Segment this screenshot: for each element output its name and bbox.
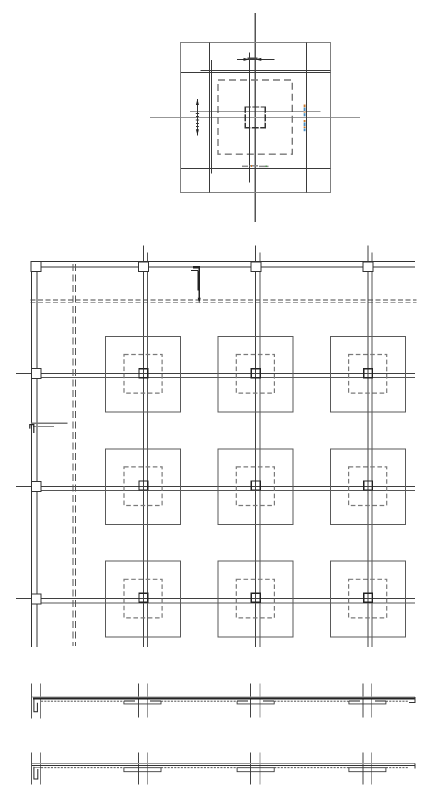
top dimension text blob [248,57,258,59]
hidden beam dashed lines [31,264,417,646]
s2 soffit dashed segments [41,767,409,769]
left wall annotation leader [30,423,68,433]
footing F7 r3c1 [106,561,181,637]
s2 column c3 pair [362,753,364,785]
grid line 3 horizontal main row3 [16,598,415,600]
left wall inner line [36,271,38,647]
horizontal dashed beam line a [31,299,417,301]
s1 drop panel c3 [349,701,386,704]
left dimension rotated text ticks [196,114,199,127]
left dimension line vertical [196,99,198,135]
tiny text color dots [251,165,252,167]
footings grid 3x3 [106,336,406,637]
s1 soffit dashed segments [41,700,409,702]
left dimension arrow bottom [196,129,199,135]
detail inner frame vertical left second [210,60,212,174]
vertical dashed beam line b [74,264,76,646]
s2 column c2 pair [250,753,252,785]
footing F9 r3c3 [330,561,405,637]
detail column square dash-dot [245,107,265,128]
leader top blob [193,266,200,268]
s1 drop panel c2 [237,701,274,704]
footing F4 r2c1 [106,449,181,525]
s1 slab top thin line [32,696,415,698]
s1 left rebar hook [34,700,38,712]
detail centerline vertical [254,13,256,222]
leader arrow at top wall [191,267,201,303]
annotation line upper [31,422,67,424]
column face line horizontal row2 [41,490,415,492]
footing F8 r3c2 [218,561,293,637]
grid line B vertical main col2 [255,246,257,648]
detail inner frame vertical left [208,43,210,193]
s1 column left pair [31,684,33,719]
s2 left rebar hook [34,767,38,779]
top wall inner line [41,266,415,268]
boundary walls [31,261,415,647]
leader arrowhead [198,298,201,304]
vertical dashed beam line a [72,264,74,646]
s1 column c2 pair [250,684,252,718]
detail centerline horizontal [150,117,360,119]
s1 drop panel c1 [124,701,161,704]
leader bracket horizontal [191,269,198,271]
footing F3 r1c3 [330,336,405,412]
detail inner frame horizontal top lower [181,71,330,73]
detail inner frame vertical right [306,43,308,193]
top wall column c1 [139,262,149,272]
grid line 2 horizontal main row2 [16,485,415,487]
column face line vertical col3 [371,253,373,648]
annotation line lower [33,425,54,427]
grid line C vertical main col3 [367,246,369,648]
grid line A vertical main col1 [142,246,144,648]
s1 slab dark line [33,698,415,700]
s2 drop panel c1 [124,768,161,772]
left wall outer line [30,261,32,647]
wall columns [31,261,373,604]
leader vertical line [198,267,200,301]
horizontal dashed beam line b [31,301,417,303]
footing F2 r1c2 [218,336,293,412]
grid line 1 horizontal main row1 [16,372,415,374]
detail dashed footing square [218,80,292,154]
s2 drop panel c3 [349,768,386,772]
top dimension line [237,58,274,60]
s1 right end cap [409,697,415,702]
left wall column r1 [31,369,41,379]
top wall column c2 [251,262,261,272]
s2 slab top thin line b [32,764,415,766]
s2 right end cap [414,764,416,769]
colored vertical dim text right side orange-blue [304,105,306,132]
tiny annotation text above bottom line [242,165,269,168]
s1 column c3 pair [362,684,364,718]
top dimension arrow right [255,58,261,61]
footing F1 r1c1 [106,336,181,412]
s2 column c1 pair [138,753,140,785]
leader bracket vertical [197,270,199,290]
left dimension arrow top [196,99,199,105]
column face line vertical col1 [147,253,149,648]
detail column face line vertical [249,53,251,183]
column face line vertical col2 [259,253,261,648]
top wall column c3 [363,262,373,272]
column face line horizontal row3 [41,602,415,604]
column face line horizontal row1 [41,377,415,379]
detail inner frame horizontal top upper [201,69,331,71]
s2 drop panel c2 [237,768,274,772]
left wall column r3 [31,594,41,604]
top dimension arrow left [244,58,250,61]
footing F5 r2c2 [218,449,293,525]
footing F6 r2c3 [330,449,405,525]
corner column [31,261,41,271]
top wall outer line [31,260,415,262]
s2 slab top thin line a [32,763,415,765]
s2 column left pair [31,753,33,785]
detail pedestal line horizontal [190,111,320,113]
detail inner frame horizontal bottom [181,168,330,170]
detail outer excavation square [181,43,331,193]
left wall column r2 [31,481,41,491]
s2 dashed line start solid bit [34,767,41,769]
annotation hook [30,425,34,433]
s1 column c1 pair [138,684,140,718]
